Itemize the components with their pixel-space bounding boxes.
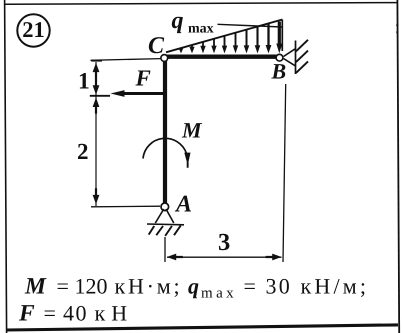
svg-text:кН/м;: кН/м; (301, 274, 370, 299)
svg-text:q: q (172, 8, 184, 34)
svg-text:q: q (188, 274, 199, 299)
svg-text:=: = (44, 301, 56, 326)
svg-text:21: 21 (22, 17, 45, 42)
svg-text:40: 40 (63, 301, 88, 326)
svg-text:=: = (57, 274, 69, 299)
svg-text:кН·м;: кН·м; (115, 274, 183, 299)
svg-text:M: M (181, 118, 203, 143)
svg-text:=: = (244, 274, 256, 299)
svg-text:3: 3 (218, 229, 230, 256)
svg-text:max: max (201, 286, 237, 302)
svg-text:A: A (174, 192, 192, 218)
svg-text:B: B (271, 59, 287, 84)
svg-text:120: 120 (75, 274, 108, 299)
svg-text:2: 2 (77, 139, 89, 164)
svg-text:M: M (24, 274, 47, 300)
svg-text:F: F (18, 301, 35, 327)
svg-text:max: max (188, 22, 214, 37)
svg-text:кН: кН (95, 301, 134, 326)
svg-text:30: 30 (266, 274, 292, 299)
svg-text:1: 1 (78, 68, 90, 94)
svg-text:F: F (135, 66, 151, 91)
